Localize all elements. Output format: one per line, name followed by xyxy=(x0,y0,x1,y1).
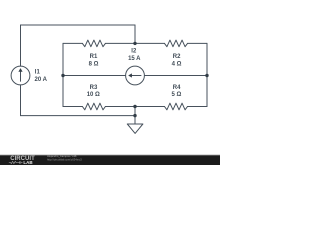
wire outer bottom xyxy=(21,115,136,117)
wire outer left upper xyxy=(20,25,22,66)
wire inner right edge xyxy=(206,43,208,106)
current source I1 xyxy=(11,66,30,85)
svg-text:5 Ω: 5 Ω xyxy=(171,92,181,98)
wire top rail left xyxy=(63,42,82,44)
svg-text:8 Ω: 8 Ω xyxy=(89,62,99,68)
wire middle rail left xyxy=(63,75,126,77)
wire inner left edge xyxy=(62,43,64,106)
resistor R2 xyxy=(165,40,188,47)
junction mid left xyxy=(61,74,64,77)
svg-text:4 Ω: 4 Ω xyxy=(172,62,182,68)
wire top rail middle xyxy=(105,42,164,44)
resistor R4 xyxy=(165,103,188,110)
wire center column top xyxy=(134,25,136,43)
resistor R3 xyxy=(82,103,105,110)
junction top center xyxy=(133,42,136,45)
footer bar xyxy=(0,156,220,165)
arrow I1 xyxy=(20,71,22,81)
svg-text:I1: I1 xyxy=(35,69,41,75)
arrowhead I1 xyxy=(18,68,22,72)
svg-text:http://circuitlab.com/c634mc3: http://circuitlab.com/c634mc3 xyxy=(47,158,82,162)
svg-text:10 Ω: 10 Ω xyxy=(87,92,100,98)
arrow I2 xyxy=(132,75,142,77)
wire ground stem xyxy=(134,107,136,125)
junction mid right xyxy=(205,74,208,77)
svg-text:R1: R1 xyxy=(90,54,98,60)
junction bottom rail xyxy=(133,105,136,108)
logo zigzag xyxy=(9,161,18,163)
junction outer bottom xyxy=(133,114,136,117)
svg-text:Alejandro_Campos / s38: Alejandro_Campos / s38 xyxy=(47,154,77,158)
svg-text:20 A: 20 A xyxy=(35,77,48,83)
svg-text:R2: R2 xyxy=(173,54,181,60)
svg-text:15 A: 15 A xyxy=(128,56,141,62)
wire bottom rail left xyxy=(63,106,82,108)
svg-text:R4: R4 xyxy=(173,85,181,91)
wire outer left lower xyxy=(20,85,22,116)
svg-text:R3: R3 xyxy=(90,85,98,91)
current source I2 xyxy=(126,66,145,85)
wire middle rail right xyxy=(144,75,207,77)
svg-text:I2: I2 xyxy=(131,48,137,54)
wire top rail right xyxy=(188,42,208,44)
wire bottom rail middle xyxy=(105,106,164,108)
arrowhead I2 xyxy=(128,73,132,77)
resistor R1 xyxy=(82,40,105,47)
wire outer top xyxy=(21,24,136,26)
wire bottom rail right xyxy=(188,106,208,108)
svg-text:LAB: LAB xyxy=(23,160,33,165)
logo capacitor xyxy=(18,161,23,163)
ground xyxy=(127,124,143,133)
